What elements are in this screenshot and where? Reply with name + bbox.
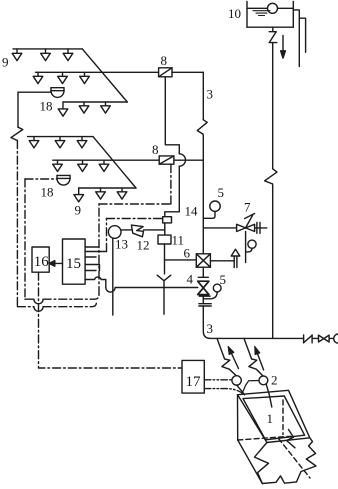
check valve: [304, 335, 313, 343]
svg-text:14: 14: [185, 204, 199, 219]
svg-text:13: 13: [115, 237, 128, 252]
suction pipe pump 1: [237, 385, 245, 395]
svg-text:12: 12: [137, 238, 150, 253]
drain drop to funnel: [164, 260, 166, 274]
delay chamber 12: [131, 225, 143, 237]
pressure switch 11 (paddle + body): [158, 217, 172, 260]
suction pipe pump 2: [266, 384, 272, 407]
wire: signal line from device 18 to left riser: [18, 92, 51, 127]
signal valve 4: [198, 281, 209, 294]
drain pipe: [299, 18, 305, 52]
svg-text:4: 4: [187, 272, 194, 287]
sprinkler c2 row2-3: [103, 160, 105, 164]
signal bus B: [17, 306, 34, 308]
flow indicator 8 (upper): [159, 68, 172, 77]
sprinkler row3-3: [105, 102, 107, 106]
pump discharge header: [210, 337, 334, 339]
reservoir tank 1: outer rim: [238, 390, 310, 442]
wire: cluster1 diagonal feed pipe: [82, 49, 127, 102]
flow arrow pump 1: [232, 354, 239, 369]
valve 7 (test valve with lever): [237, 214, 255, 232]
wire: cluster2 branch row 3 pipe: [79, 187, 136, 189]
pipe hop over branch row2: [179, 154, 185, 166]
hidden bottom-left edge (dashed): [238, 436, 291, 440]
svg-text:17: 17: [186, 374, 202, 390]
alarm check valve 6: [196, 254, 210, 267]
drain funnel: [157, 275, 171, 314]
pressure gauge 5 (upper): [210, 201, 220, 211]
signal wire: left riser 2 (to cluster2 device 18): [24, 179, 26, 299]
discharge pipe pump 2 (with break): [244, 338, 263, 375]
wire: gong to delay chamber: [121, 229, 131, 231]
sprinkler c2 row3-1 (corner): [78, 188, 80, 195]
water level marks: [253, 11, 270, 16]
wire: drop pipe from indicator 8 upper to lower level: [165, 77, 179, 154]
wire stubs from box 15: [85, 246, 99, 248]
flexible joint (double flange): [199, 304, 211, 306]
sprinkler row2-2: [62, 72, 64, 76]
sprinkler c2 row1-2: [59, 137, 61, 141]
sprinkler c2 row3-3: [121, 188, 123, 192]
tank left wall edge: [237, 395, 239, 440]
reservoir inner rim: [243, 396, 305, 440]
signal riser to flow indicators: [98, 204, 100, 295]
pipe break (below tank): [269, 32, 277, 43]
overflow pipe: [293, 10, 299, 67]
gong drain pipe: [112, 238, 114, 315]
signal wire to pressure switch 11: [106, 219, 108, 252]
wire: pipe from indicator 8 to riser 3: [172, 71, 203, 73]
discharge pipe pump 1 (with break): [217, 338, 236, 375]
pump 1: [232, 376, 241, 385]
tank riser (down to header): [272, 43, 274, 169]
svg-text:3: 3: [207, 321, 214, 336]
svg-text:16: 16: [34, 254, 50, 270]
sprinkler c2 row3-2: [100, 188, 102, 192]
sprinkler row1-3: [67, 49, 69, 53]
hidden bottom edge diagonal (dashed): [279, 439, 311, 479]
test branch with valve 7: [203, 227, 266, 229]
svg-text:5: 5: [220, 272, 227, 287]
svg-text:10: 10: [228, 6, 241, 21]
wire: cluster1 branch row 1 pipe: [13, 48, 82, 50]
float ball: [268, 3, 278, 13]
svg-text:3: 3: [207, 87, 214, 102]
wire: cluster2 branch row 1 pipe: [28, 136, 93, 138]
sprinkler row2-3: [84, 72, 86, 76]
sprinkler row1-1: [16, 49, 18, 53]
flange below valve 4: [199, 295, 210, 297]
wire: drain line from switch stem to valve 6: [165, 259, 197, 261]
wire: cluster1 branch row 3 pipe: [63, 101, 127, 103]
hollow up-arrow (to riser continuation): [231, 249, 240, 267]
sprinkler c2 row2-2: [82, 160, 84, 164]
arrow 15 to 16: [55, 262, 63, 264]
svg-text:1: 1: [267, 411, 274, 426]
rim tear (bottom-right of top face): [287, 430, 296, 448]
small gauge on valve-7 drop: [248, 240, 256, 248]
svg-text:11: 11: [172, 233, 185, 248]
roof tank 10: [247, 2, 293, 28]
tank bottom edge with break tooth: [262, 476, 296, 484]
flow arrow pump 2: [258, 354, 264, 370]
hidden tank corner edge (dashed): [282, 400, 284, 435]
sprinkler row3-2: [83, 102, 85, 106]
riser below valve 6 with flange: [202, 267, 204, 277]
flow arrow (down from tank): [282, 35, 284, 50]
svg-text:15: 15: [66, 256, 81, 272]
pipe break on tank riser: [265, 169, 277, 184]
svg-text:8: 8: [152, 142, 159, 157]
control wire 17 to pump 2: [204, 389, 242, 394]
svg-text:18: 18: [41, 185, 54, 200]
signal bus A: [25, 298, 34, 300]
svg-text:6: 6: [184, 246, 191, 261]
tank outlet stub: [272, 27, 274, 31]
pipe break symbol (left signal line): [11, 127, 23, 140]
sprinkler row1-2: [45, 49, 47, 53]
svg-text:5: 5: [218, 185, 225, 200]
svg-text:8: 8: [161, 53, 168, 68]
tank tear below rim corner: [255, 443, 269, 484]
riser to pump header: [203, 306, 210, 338]
wire: cluster1 branch row 2 pipe: [36, 71, 159, 73]
svg-text:18: 18: [40, 99, 53, 114]
drain header: [106, 287, 198, 292]
riser segment: [202, 296, 204, 303]
drain drop below valve 7: [245, 232, 247, 263]
pressure gauge 5 (lower): [213, 284, 221, 292]
sprinkler c2 row1-3: [81, 137, 83, 141]
svg-text:7: 7: [244, 200, 251, 215]
control wire 16 to 17: [39, 272, 183, 368]
svg-text:9: 9: [2, 55, 9, 70]
pipe break on riser 3: [197, 120, 207, 134]
flow indicator 8 (lower): [159, 156, 174, 164]
signal wire: left riser 1 (from cluster1 device 18): [16, 141, 18, 307]
tank right wall jagged break: [297, 438, 317, 482]
sprinkler row2-1: [37, 72, 39, 76]
pipe fitting (clipped at edge): [334, 334, 338, 343]
wire: pipe from lower indicator 8 to riser: [174, 159, 203, 161]
wire: branch right of valve 6: [210, 260, 234, 262]
controller box 15: [63, 239, 86, 284]
sprinkler row3-1 (corner): [62, 102, 64, 109]
controller box 16: [32, 247, 49, 272]
alarm device 18 (cluster 2): [57, 175, 70, 185]
hose connector ticks: [257, 222, 260, 233]
svg-text:2: 2: [271, 373, 278, 388]
tank left wall bottom diagonal: [238, 440, 263, 484]
alarm device 18 (cluster 1): [51, 88, 64, 98]
sprinkler c2 row2-1: [57, 160, 59, 164]
sprinkler c2 row1-1: [33, 137, 35, 141]
pump controller box 17: [182, 360, 204, 393]
wire: cluster2 branch row 2 pipe: [53, 159, 159, 161]
pump 2: [259, 376, 268, 385]
svg-text:9: 9: [75, 203, 82, 218]
wire: delay chamber to pressure switch stem: [144, 229, 165, 231]
wire: cluster2 diagonal feed pipe: [93, 137, 136, 188]
water motor gong 13: [108, 226, 121, 239]
gate valve: [319, 335, 330, 342]
riser 3 (vertical main): [202, 72, 204, 120]
control wire 17 to pump 1: [204, 379, 231, 381]
